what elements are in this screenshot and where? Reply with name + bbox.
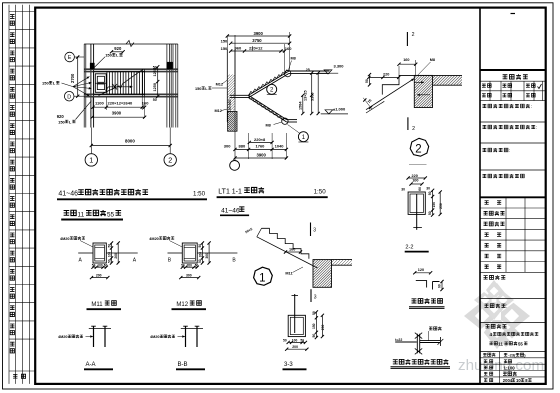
svg-text:-23(: -23( (508, 353, 516, 358)
svg-text:880: 880 (239, 143, 246, 148)
svg-text:30: 30 (401, 188, 405, 192)
svg-text:2: 2 (412, 126, 415, 132)
svg-text:55: 55 (518, 341, 523, 346)
svg-text:4M20: 4M20 (60, 237, 70, 241)
weld-detail end cross (439, 337, 441, 346)
row 施工图审查批准书证号 (482, 125, 486, 128)
svg-text:50: 50 (312, 334, 316, 338)
section bottom dim extension lines (248, 133, 250, 159)
detail1 slab lines right (332, 259, 353, 261)
svg-text:50: 50 (104, 263, 108, 267)
svg-text:50: 50 (107, 259, 111, 263)
svg-text:3-3: 3-3 (284, 362, 293, 368)
svg-text:50: 50 (312, 311, 316, 315)
svg-text:13×25: 13×25 (304, 90, 308, 101)
section bottom dims 300/880/1760/1040 (235, 148, 286, 150)
svg-text:30: 30 (426, 187, 430, 191)
cells row2 报建/报建/投标 (482, 94, 486, 97)
3-3 outer square (288, 315, 305, 336)
right side dim 50/1250/1250/50 (157, 67, 159, 97)
lower node circle M8 (282, 118, 288, 124)
svg-text:1:50: 1:50 (314, 188, 327, 195)
svg-text:150: 150 (221, 39, 228, 44)
svg-text:1:50: 1:50 (193, 190, 206, 197)
svg-text:4M20: 4M20 (58, 335, 68, 339)
svg-text:M8: M8 (430, 58, 435, 62)
circled 2 flight mark (267, 84, 277, 94)
weld-detail left plate line (395, 341, 417, 343)
svg-text:11: 11 (78, 211, 85, 218)
svg-text:220: 220 (412, 174, 418, 178)
svg-text:50: 50 (153, 66, 157, 70)
svg-text:M12: M12 (216, 82, 223, 86)
3-3 right dims (315, 312, 317, 338)
plan dim extension verticals (92, 97, 94, 118)
svg-text:150: 150 (312, 323, 316, 329)
svg-text:2: 2 (168, 156, 172, 165)
svg-text:M8: M8 (291, 56, 296, 60)
svg-text:300: 300 (186, 273, 192, 277)
plan bottom wall double line (84, 93, 178, 95)
svg-text:60: 60 (418, 187, 422, 191)
svg-text:100: 100 (292, 338, 298, 342)
3-3 anchor bolt stem (294, 294, 296, 317)
3-3 inner square (290, 317, 303, 334)
title block left edge (479, 8, 481, 384)
svg-text:50: 50 (198, 244, 202, 248)
section mid landing (230, 94, 249, 96)
svg-text:50: 50 (153, 98, 157, 102)
svg-text:200: 200 (292, 345, 298, 349)
svg-text:55: 55 (107, 211, 115, 218)
svg-text:200: 200 (114, 253, 118, 259)
svg-text:50: 50 (181, 263, 185, 267)
detail1 section mark 3 top (310, 223, 312, 237)
M11 inner square (95, 245, 105, 261)
lower flight steps (249, 95, 285, 120)
svg-text:150: 150 (228, 106, 232, 112)
M12 inner square (184, 245, 195, 261)
lower flight stringers (249, 95, 287, 119)
svg-text:150: 150 (42, 81, 49, 86)
leader to wall (93, 57, 105, 69)
B-B anchor bars (185, 326, 187, 347)
lower floor slab lines (287, 119, 297, 121)
step-detail title (412, 299, 417, 303)
A-A base line (89, 328, 111, 330)
dim 2700 left (77, 57, 79, 96)
M12 plate lines (184, 246, 195, 248)
svg-text:60: 60 (438, 284, 442, 288)
svg-text:M11: M11 (91, 302, 103, 308)
svg-text:300: 300 (224, 143, 231, 148)
svg-text::: : (506, 304, 507, 310)
svg-text:50: 50 (428, 191, 432, 195)
svg-text:A-A: A-A (86, 362, 96, 368)
svg-text:200: 200 (96, 273, 102, 277)
left strip row labels (10, 15, 14, 19)
svg-text:4: 4 (490, 332, 493, 337)
svg-text:100: 100 (97, 263, 103, 267)
section right dims 13x25 3300 1584 (311, 73, 313, 114)
section left wall lines (226, 50, 228, 123)
svg-text:100: 100 (108, 252, 112, 258)
dim 8000 bottom (90, 128, 92, 154)
up-direction arrow (106, 87, 109, 91)
title 设计性质 header (503, 75, 508, 79)
left strip bottom cell label (13, 374, 17, 378)
section wall hatch (191, 75, 271, 111)
section grid line vertical (234, 35, 236, 160)
svg-text:960: 960 (235, 45, 242, 50)
personnel labels (485, 201, 489, 205)
row 施工图审查批准单位 (482, 104, 486, 107)
cells row1 方案/初设/施工 + check (482, 84, 486, 87)
detail1 flight top short line (257, 228, 262, 237)
upper level mark 3.300 (320, 72, 338, 74)
weld-detail right plate (420, 340, 441, 342)
row 日期 / date (484, 379, 487, 382)
M12 right dims (201, 243, 203, 263)
svg-text:10: 10 (516, 378, 521, 383)
detail1 stepped flight (262, 228, 309, 259)
svg-text:M12: M12 (176, 302, 188, 308)
svg-text:3900: 3900 (257, 152, 267, 157)
row 图别 / 结施 (484, 360, 487, 363)
weld-detail X marks (415, 333, 422, 339)
svg-text:1100: 1100 (95, 101, 104, 106)
svg-text:150: 150 (432, 202, 436, 208)
plan right wall lines (166, 44, 168, 128)
svg-text:100: 100 (412, 179, 418, 183)
svg-text:160: 160 (142, 101, 149, 106)
row 图纸专用章 (482, 148, 486, 151)
stair treads (106, 72, 108, 94)
svg-text:920: 920 (228, 100, 232, 106)
svg-text:11: 11 (498, 341, 503, 346)
break line diagonal (99, 69, 144, 95)
svg-text:50: 50 (300, 338, 304, 342)
svg-text:LT1 1-1: LT1 1-1 (218, 188, 242, 195)
svg-text:160: 160 (403, 58, 409, 62)
grid bubble E (65, 52, 75, 62)
slab top line (399, 74, 462, 76)
svg-text:41~46: 41~46 (58, 190, 78, 197)
drawing name line2 (489, 342, 492, 345)
watermark zhulong logo (484, 283, 510, 312)
dim 50 slab thickness (369, 75, 371, 85)
anchor arrows in beam (414, 81, 424, 83)
svg-text:300: 300 (205, 253, 209, 259)
svg-text:1760: 1760 (256, 143, 266, 148)
svg-text:250: 250 (321, 325, 325, 331)
svg-text:2-2: 2-2 (405, 245, 413, 251)
svg-text:200: 200 (187, 263, 193, 267)
M12 section line through (168, 252, 183, 254)
weld-detail label (429, 327, 432, 330)
svg-text:250: 250 (439, 203, 443, 209)
M11 plate lines (95, 246, 105, 248)
svg-text:1: 1 (89, 156, 93, 165)
svg-text:50: 50 (365, 79, 369, 83)
step-detail profile (416, 281, 427, 288)
svg-text:2: 2 (412, 32, 415, 38)
plan top floor line (84, 43, 178, 45)
svg-text::: : (536, 126, 537, 131)
svg-text:8000: 8000 (125, 138, 135, 143)
svg-text:3300: 3300 (311, 93, 315, 101)
svg-text:t=22: t=22 (395, 338, 402, 342)
svg-text:3750: 3750 (252, 38, 262, 43)
section mark 2 top (406, 32, 408, 46)
svg-text:150: 150 (105, 53, 112, 58)
detail1 beam hatched (313, 260, 332, 288)
svg-text:220×12: 220×12 (249, 45, 263, 50)
svg-text:4M20: 4M20 (150, 335, 160, 339)
detail bubble 2 (wobbly circle) (410, 138, 428, 156)
M11 right dims (111, 243, 113, 263)
plan left wall lines (83, 44, 85, 128)
beam rect hatched (414, 75, 432, 107)
svg-text:200: 200 (198, 252, 202, 258)
svg-text:2700: 2700 (70, 73, 75, 83)
upper node circle M8 (285, 70, 291, 76)
weld-detail vertical bar (416, 334, 418, 354)
row 专业 / 结构 (484, 372, 487, 375)
svg-text:150: 150 (221, 46, 228, 51)
left signature strip table (9, 11, 35, 13)
svg-text:920: 920 (114, 46, 122, 51)
svg-text:160: 160 (289, 247, 295, 251)
svg-text:920: 920 (57, 114, 65, 119)
3-3 bolt through square (294, 317, 296, 333)
svg-text:3900: 3900 (254, 31, 264, 36)
section 建设单位 (485, 304, 489, 307)
personnel table (480, 207, 546, 209)
2-2 inner square (410, 194, 423, 213)
section dim extension lines top (226, 36, 228, 51)
plan top wall double line (84, 68, 178, 70)
svg-text:50: 50 (107, 244, 111, 248)
weld-detail title (393, 360, 398, 364)
section 图纸名称 header (486, 325, 490, 328)
stair soffit diagonal upper (366, 79, 414, 110)
section mark 2 bottom (407, 117, 409, 130)
svg-text:D: D (67, 94, 71, 100)
floor line break symbol (126, 41, 134, 47)
svg-text:3900: 3900 (112, 111, 122, 116)
section grid bubble empty (230, 161, 240, 171)
upper flight stringers (249, 71, 290, 95)
M11 outer square (93, 243, 106, 263)
svg-text:50: 50 (428, 211, 432, 215)
svg-text:1040: 1040 (275, 143, 285, 148)
stairwell boundary (94, 71, 145, 94)
M11 section line through (78, 252, 93, 254)
svg-text:zhulong.com: zhulong.com (458, 357, 544, 374)
svg-text:B-B: B-B (178, 362, 188, 368)
A-A anchor bars (93, 326, 95, 347)
landing shaft rects (95, 74, 106, 93)
M12 outer square (182, 243, 197, 263)
row 比例 / 1:100 (484, 366, 487, 369)
upper flight steps (249, 70, 289, 96)
3-3 bottom dims (288, 341, 305, 343)
svg-text:3: 3 (313, 228, 316, 234)
svg-text:50: 50 (195, 263, 199, 267)
svg-text:50: 50 (283, 338, 287, 342)
svg-text:3: 3 (314, 295, 317, 301)
detail1 section mark 3 bottom (310, 289, 312, 302)
svg-text:E: E (68, 55, 72, 61)
row 注册结构师执业章 (482, 174, 486, 177)
section 工程项目 (484, 276, 488, 280)
svg-text:4M20: 4M20 (149, 237, 159, 241)
step profile left of beam (382, 75, 399, 94)
detail1 bubble 1 (wobbly circle) (254, 267, 273, 285)
svg-text:41~46: 41~46 (221, 207, 240, 214)
design-type grid (489, 81, 491, 100)
2-2 anchor bolt line (416, 194, 418, 230)
svg-text:220×8: 220×8 (254, 137, 266, 142)
svg-text:M12: M12 (215, 109, 222, 113)
column right (solid) (167, 62, 173, 69)
column left (solid) (90, 63, 95, 69)
2-2 right dims 50/150/250/50 (432, 190, 434, 215)
M12 bottom dims (182, 266, 197, 268)
svg-text:2004: 2004 (503, 378, 513, 383)
bottom info table (480, 357, 546, 359)
svg-text:150: 150 (58, 119, 65, 124)
lower level mark 1.000 (321, 113, 348, 115)
svg-text:1250: 1250 (153, 83, 157, 91)
2-2 outer square (408, 192, 425, 214)
svg-text::: : (509, 149, 510, 154)
svg-text:1: 1 (259, 272, 265, 284)
svg-text:25: 25 (306, 68, 310, 72)
section lower beam hatched block (228, 111, 237, 131)
svg-text:3.300: 3.300 (334, 64, 345, 69)
title block top empty box divider (480, 69, 546, 71)
grid bubble D (64, 91, 74, 101)
svg-text:150: 150 (195, 87, 201, 91)
svg-text:50: 50 (92, 263, 96, 267)
small mark in top box (511, 13, 516, 15)
svg-text::: : (531, 105, 532, 110)
svg-text:220×12=2640: 220×12=2640 (108, 101, 133, 106)
stair mid wall pair (142, 69, 144, 96)
section bottom dim 3900 (235, 157, 286, 159)
svg-text:1584: 1584 (298, 101, 302, 110)
svg-text:50: 50 (198, 259, 202, 263)
upper floor slab lines (289, 70, 329, 72)
svg-text:M8: M8 (266, 124, 271, 128)
step-detail dim 60 (441, 282, 443, 290)
plan subtitle 每梯11座楼梯共55座 (64, 211, 70, 216)
svg-text:2: 2 (415, 143, 421, 155)
circled 1 flight mark (298, 132, 308, 142)
slab hatch (423, 75, 475, 85)
svg-text:1:100: 1:100 (504, 366, 516, 371)
svg-text:M11: M11 (285, 272, 292, 276)
grid bubble 2 (164, 154, 176, 166)
svg-text:160: 160 (285, 46, 292, 51)
grid bubble 1 (85, 154, 97, 166)
detail1 soffit diagonal (257, 237, 318, 268)
row 图纸号 / value (483, 353, 486, 356)
B-B base line (181, 328, 203, 330)
svg-text:±1.000: ±1.000 (333, 107, 346, 112)
M11 bottom dims (93, 266, 106, 268)
slab bottom line (433, 84, 463, 86)
svg-text:120: 120 (418, 268, 424, 272)
stair soffit diagonal lower (366, 101, 384, 113)
